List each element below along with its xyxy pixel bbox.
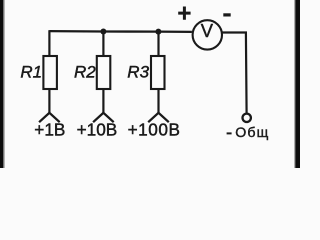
svg-text:+10В: +10В <box>77 119 118 139</box>
resistor R2 body <box>97 56 111 89</box>
wire: R1 branch bottom stub <box>48 89 50 113</box>
svg-text:Общ: Общ <box>235 125 269 141</box>
left edge black bar <box>0 0 3 168</box>
common terminal open circle <box>243 114 251 122</box>
voltmeter U1 circle <box>193 20 222 49</box>
resistor R1 body <box>43 56 57 89</box>
svg-text:R3: R3 <box>127 62 149 81</box>
polarity minus sign <box>223 13 230 16</box>
svg-text:R1: R1 <box>20 62 42 81</box>
input terminal chevron 3 <box>148 113 169 122</box>
wire: R3 branch bottom stub <box>157 89 159 113</box>
wire: top bus from R1 branch to voltmeter <box>49 30 192 33</box>
svg-text:+1В: +1В <box>34 119 65 139</box>
wire: R1 branch top stub <box>48 30 50 57</box>
svg-text:R2: R2 <box>74 62 96 81</box>
junction dot node 3 <box>155 29 161 35</box>
right edge black bar <box>295 0 300 168</box>
svg-text:+100В: +100В <box>128 119 181 139</box>
resistor R3 body <box>151 56 165 89</box>
wire: R3 branch top stub <box>157 32 159 57</box>
polarity plus sign <box>178 7 190 20</box>
svg-text:V: V <box>201 20 214 41</box>
wire: R2 branch top stub <box>102 32 104 57</box>
input terminal chevron 2 <box>93 113 114 122</box>
wire: R2 branch bottom stub <box>102 89 104 113</box>
junction dot node 2 <box>100 29 106 35</box>
wire: voltmeter to right corner <box>222 33 247 114</box>
label - Obshch (common) dash <box>227 132 232 134</box>
input terminal chevron 1 <box>39 113 60 122</box>
